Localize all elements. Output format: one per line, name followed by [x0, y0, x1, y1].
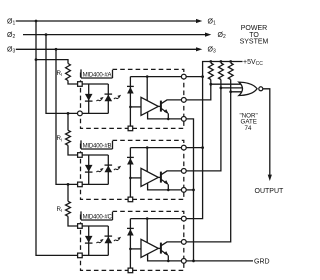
- svg-text:RI: RI: [57, 206, 63, 213]
- junction +5V rail at R2: [220, 60, 223, 63]
- svg-text:OUTPUT: OUTPUT: [255, 188, 285, 195]
- wire photodiode branch: [129, 77, 131, 129]
- svg-text:RI: RI: [57, 135, 63, 142]
- LED D1 (anode up): [85, 94, 93, 101]
- resistor RC: [66, 201, 71, 216]
- pin 6 terminal (collector out): [181, 240, 186, 245]
- label MID400-#C tab: [81, 211, 113, 220]
- wire module B emitter to ground bus: [186, 189, 194, 191]
- svg-text:RI: RI: [57, 70, 63, 77]
- wire amplifier supply: [146, 219, 148, 243]
- photon emission arrow 2: [114, 95, 121, 99]
- wire R1 to NOR input: [211, 80, 244, 85]
- LED D2 (anode down): [105, 236, 113, 243]
- opto module UC MID400-#C dashed box: [81, 211, 184, 270]
- wire R3 down to module collector: [186, 92, 231, 242]
- photon emission arrow 1: [96, 97, 103, 101]
- wire amplifier output to base: [158, 176, 161, 178]
- wire amplifier input: [130, 248, 141, 250]
- junction +5V rail at R1: [209, 60, 212, 63]
- junction +5V at module B: [201, 146, 204, 149]
- LED D1 (anode up): [85, 165, 93, 172]
- photon emission arrow 1: [96, 168, 103, 172]
- wire amplifier output to base: [158, 247, 161, 249]
- junction emitter to rail: [167, 260, 170, 263]
- pin 1 terminal (AC in): [78, 153, 83, 158]
- wire NOR output: [263, 89, 270, 176]
- resistor RA: [66, 64, 71, 81]
- wire module A Vcc pin to +5V drop: [186, 76, 203, 78]
- wire amplifier input: [130, 177, 141, 179]
- wire phase 3 drop to module B return: [56, 49, 78, 184]
- pin 4 terminal (photodiode): [128, 126, 133, 131]
- wire emitter return rail: [148, 112, 184, 119]
- svg-text:Ø2: Ø2: [218, 32, 226, 40]
- transistor QB collector: [161, 171, 184, 175]
- junction amplifier supply tap: [146, 75, 149, 78]
- junction phase 1 tap: [35, 20, 38, 23]
- wire amplifier supply: [146, 148, 148, 172]
- wire phase 3 bus: [16, 48, 197, 50]
- wire photodiode branch: [129, 219, 131, 271]
- pin 2 terminal (AC return): [78, 253, 83, 258]
- transistor QA base bar: [160, 101, 162, 112]
- NOR gate U2 body: [239, 82, 257, 95]
- photon emission arrow 1: [96, 239, 103, 243]
- pin 8 terminal (Vcc): [181, 74, 186, 79]
- wire phase 1 drop to module C return: [36, 21, 78, 255]
- junction emitter to rail: [167, 118, 170, 121]
- phase 2 arrowhead to system: [205, 33, 211, 37]
- wire AC input top rail to LED bridge: [80, 83, 108, 85]
- wire phase 2 drop to module A return: [46, 35, 78, 114]
- ground bus wire: [186, 119, 194, 261]
- wire amplifier supply: [146, 77, 148, 101]
- junction photodiode to amplifier: [129, 248, 132, 251]
- wire LED bridge right branch: [107, 226, 109, 255]
- wire AC input top rail to LED bridge: [80, 225, 108, 227]
- pin 8 terminal (Vcc): [181, 145, 186, 150]
- junction photodiode to amplifier: [129, 106, 132, 109]
- pin 8 terminal (Vcc): [181, 216, 186, 221]
- op-amp buffer AB: [141, 168, 158, 186]
- photodiode D3 (cathode up): [127, 86, 134, 93]
- wire phase 1 bus: [16, 20, 197, 22]
- photon emission arrow 2: [114, 237, 121, 241]
- wire node to RC: [67, 184, 69, 201]
- svg-text:+5VCC: +5VCC: [243, 59, 263, 67]
- svg-text:Ø1: Ø1: [7, 18, 15, 26]
- pin 6 terminal (collector out): [181, 98, 186, 103]
- junction phase 1 to resistor RA: [35, 58, 38, 61]
- wire photodiode branch: [129, 148, 131, 200]
- svg-text:Ø2: Ø2: [7, 32, 15, 40]
- label MID400-#A tab: [81, 69, 113, 78]
- output arrowhead: [268, 175, 272, 181]
- pin 5 terminal (emitter/gnd): [181, 259, 186, 264]
- transistor QC collector: [161, 242, 184, 246]
- svg-text:SYSTEM: SYSTEM: [240, 38, 269, 45]
- wire LED bridge left branch: [88, 226, 90, 255]
- resistor RB: [66, 130, 71, 145]
- junction emitter to rail: [167, 189, 170, 192]
- wire node to RB: [67, 113, 69, 130]
- wire module B Vcc pin to +5V drop: [186, 147, 203, 149]
- wire R2 to NOR input: [221, 80, 244, 88]
- photon emission arrow 2: [114, 166, 121, 170]
- wire emitter return rail: [148, 254, 184, 261]
- pull-up resistor RP2: [219, 63, 224, 80]
- junction phase 2 tap: [45, 33, 48, 36]
- junction photodiode to amplifier: [129, 177, 132, 180]
- wire R2 down to module collector: [186, 88, 221, 171]
- svg-text:MID400-#B: MID400-#B: [83, 143, 112, 149]
- label POWER TO SYSTEM: [240, 25, 269, 45]
- wire +5V drop to module tops: [186, 77, 203, 219]
- wire module C emitter to GRD: [186, 260, 253, 262]
- phase 1 arrowhead to system: [196, 19, 202, 23]
- svg-text:Ø3: Ø3: [208, 47, 216, 55]
- photodiode D3 (cathode up): [127, 228, 134, 235]
- pin 2 terminal (AC return): [78, 111, 83, 116]
- wire amplifier input: [130, 106, 141, 108]
- pin 4 terminal (photodiode): [128, 197, 133, 202]
- svg-text:MID400-#A: MID400-#A: [83, 72, 112, 78]
- junction R2 NOR input tap: [220, 87, 223, 90]
- opto module UB MID400-#B dashed box: [81, 140, 184, 199]
- pin 2 terminal (AC return): [78, 182, 83, 187]
- phase 3 arrowhead to system: [196, 47, 202, 51]
- transistor QA emitter: [161, 109, 168, 119]
- junction R1 NOR input tap: [209, 83, 212, 86]
- wire R1 down to module collector: [186, 84, 211, 100]
- transistor QC base bar: [160, 243, 162, 254]
- wire AC input bottom rail of LED bridge: [80, 254, 108, 256]
- label MID400-#B tab: [81, 140, 113, 149]
- wire RC to module C pin1: [68, 216, 78, 226]
- NOR gate output bubble: [259, 87, 263, 91]
- wire AC input top rail to LED bridge: [80, 154, 108, 156]
- junction R3 NOR input tap: [229, 90, 232, 93]
- junction ground bus at module B: [192, 189, 195, 192]
- photodiode D3 (cathode up): [127, 157, 134, 164]
- wire LED bridge right branch: [107, 84, 109, 113]
- junction amplifier supply tap: [146, 217, 149, 220]
- wire LED bridge left branch: [88, 155, 90, 184]
- transistor QB base bar: [160, 172, 162, 183]
- op-amp buffer AC: [141, 239, 158, 257]
- svg-text:GRD: GRD: [254, 258, 270, 265]
- LED D1 (anode up): [85, 236, 93, 243]
- pin 4 terminal (photodiode): [128, 268, 133, 273]
- wire AC input bottom rail of LED bridge: [80, 183, 108, 185]
- transistor QC emitter: [161, 251, 168, 261]
- pin 1 terminal (AC in): [78, 82, 83, 87]
- svg-text:74: 74: [245, 125, 252, 132]
- wire phase 2 bus: [23, 34, 206, 36]
- wire LED bridge left branch: [88, 84, 90, 113]
- opto module UA MID400-#A dashed box: [81, 69, 184, 128]
- svg-text:Ø1: Ø1: [208, 18, 216, 26]
- svg-text:MID400-#C: MID400-#C: [83, 214, 113, 220]
- wire AC input bottom rail of LED bridge: [80, 112, 108, 114]
- junction +5V rail at R3: [229, 60, 232, 63]
- svg-text:Ø3: Ø3: [7, 47, 15, 55]
- LED D2 (anode down): [105, 94, 113, 101]
- wire phase 1 branch to RA: [36, 60, 68, 64]
- pin 5 terminal (emitter/gnd): [181, 188, 186, 193]
- wire internal +V rail: [130, 147, 183, 149]
- pin 5 terminal (emitter/gnd): [181, 117, 186, 122]
- transistor QA collector: [161, 100, 184, 104]
- label NOR gate: [240, 113, 258, 132]
- wire LED bridge right branch: [107, 155, 109, 184]
- pin 6 terminal (collector out): [181, 169, 186, 174]
- junction +5V at module A: [201, 75, 204, 78]
- wire R3 to NOR input: [231, 80, 244, 92]
- pull-up resistor RP3: [228, 63, 233, 80]
- wire internal +V rail: [130, 76, 183, 78]
- junction phase 2 node to resistor RB: [67, 112, 70, 115]
- pull-up resistor RP1: [208, 63, 213, 80]
- LED D2 (anode down): [105, 165, 113, 172]
- junction phase 3 node to resistor RC: [67, 183, 70, 186]
- wire RB to module B pin1: [68, 145, 78, 155]
- transistor QB emitter: [161, 180, 168, 190]
- pin 1 terminal (AC in): [78, 224, 83, 229]
- wire +5Vcc rail: [203, 62, 243, 77]
- junction phase 3 tap: [55, 48, 58, 51]
- wire internal +V rail: [130, 218, 183, 220]
- wire RA to module A pin1: [68, 81, 78, 85]
- junction amplifier supply tap: [146, 146, 149, 149]
- junction ground bus at GRD line: [192, 260, 195, 263]
- wire amplifier output to base: [158, 105, 161, 107]
- wire emitter return rail: [148, 183, 184, 190]
- op-amp buffer AA: [141, 97, 158, 115]
